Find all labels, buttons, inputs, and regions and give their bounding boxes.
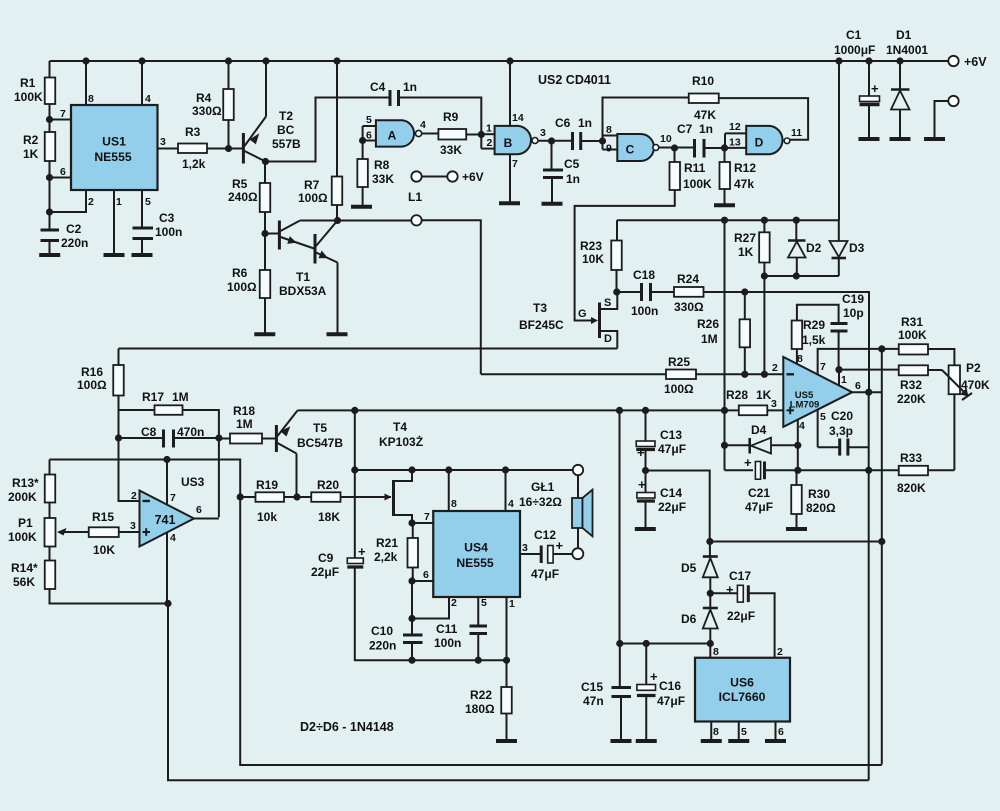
pin label 3 gate B (540, 127, 546, 139)
wire R11 link (674, 148, 676, 162)
pin label 13 gate D (729, 137, 741, 149)
svg-text:R4: R4 (196, 91, 212, 105)
wire R2 to C2 (49, 161, 51, 229)
svg-text:GŁ1: GŁ1 (531, 480, 555, 494)
wire D5 top link (709, 542, 711, 557)
capacitor C18 (631, 268, 658, 318)
svg-text:BDX53A: BDX53A (279, 284, 327, 298)
svg-text:16÷32Ω: 16÷32Ω (519, 495, 562, 509)
wire line to C13 (645, 410, 647, 441)
pin label 5 US4 (481, 597, 487, 609)
wire pin 14 gate B (509, 61, 511, 126)
wire V+ line (50, 460, 882, 766)
wire T5 collector line (298, 409, 739, 411)
svg-text:8: 8 (606, 124, 612, 136)
pin label 6 US3 (196, 504, 202, 516)
wire gate C out (659, 147, 694, 149)
node rail C1 (865, 57, 872, 64)
wire dist to D3 (838, 220, 840, 241)
svg-text:2: 2 (487, 137, 493, 149)
svg-text:KP103Ż: KP103Ż (379, 434, 423, 449)
resistor R18 (230, 404, 262, 444)
ground gate B (499, 201, 520, 205)
svg-text:1K: 1K (23, 147, 39, 161)
wire pin 4 US5 (797, 420, 799, 471)
wire R16 line (119, 348, 618, 350)
node pin7 junction (46, 116, 53, 123)
node C11 bottom (475, 657, 482, 664)
svg-text:R30: R30 (808, 487, 830, 501)
wire P2 bottom to R33 (953, 394, 955, 470)
resistor R25 (664, 355, 696, 396)
svg-text:7: 7 (60, 108, 66, 120)
wire R18 left (219, 438, 230, 440)
wire C17 to pin2 US6 (748, 593, 774, 657)
svg-text:P2: P2 (966, 361, 981, 375)
wire pin 7 US4 (412, 522, 433, 524)
wire C3 to ground (141, 239, 143, 255)
svg-text:BC547B: BC547B (297, 436, 343, 450)
wire pin4node to R30 (796, 470, 798, 485)
diode D6 (681, 608, 718, 629)
svg-text:5: 5 (145, 196, 151, 208)
resistor R13 (8, 475, 55, 505)
capacitor C1 (834, 28, 880, 138)
node R33 output column (865, 467, 872, 474)
svg-text:1n: 1n (699, 122, 713, 136)
wire rail to R1 (49, 61, 51, 78)
wire T5 line to C9 (354, 410, 356, 558)
svg-text:C15: C15 (581, 680, 603, 694)
node D5 top (706, 538, 713, 545)
wire gate D tie (724, 133, 726, 148)
wire pin2 line (481, 373, 666, 375)
svg-text:R7: R7 (304, 178, 320, 192)
wire T5 emitter down (296, 454, 298, 498)
node pin6 junction (46, 174, 53, 181)
svg-text:470K: 470K (961, 378, 990, 392)
svg-text:47μF: 47μF (745, 500, 773, 514)
node right column D5line (878, 538, 885, 545)
wire R17 right (183, 410, 219, 517)
wire pin 4 US4 (505, 470, 507, 511)
wire pin 5 C11 (477, 597, 479, 626)
pin label 12 gate D (729, 121, 741, 133)
wire US6 pin6 gnd (775, 722, 777, 740)
svg-text:100K: 100K (683, 177, 712, 191)
resistor R4 (192, 89, 234, 120)
svg-text:D4: D4 (751, 423, 767, 437)
svg-text:4: 4 (145, 93, 151, 105)
resistor R2 (23, 132, 55, 161)
diode D2 (788, 241, 822, 258)
wire output column (868, 392, 870, 780)
wire R19 left (240, 496, 255, 498)
svg-text:C11: C11 (436, 622, 458, 636)
pin label 4 US3 (170, 532, 176, 544)
op-amp US5 LM709 (783, 357, 852, 427)
svg-text:C5: C5 (564, 157, 580, 171)
svg-text:33K: 33K (372, 172, 394, 186)
wire US3 out (194, 518, 219, 520)
capacitor C19 (831, 292, 865, 331)
node pin4 D4 (794, 442, 801, 449)
wire R13 to P1 (49, 503, 51, 519)
capacitor C10 (369, 624, 423, 653)
svg-text:5: 5 (820, 411, 826, 423)
svg-text:22μF: 22μF (658, 500, 686, 514)
wire C10 link (411, 619, 413, 636)
svg-text:220K: 220K (897, 392, 926, 406)
svg-text:R33: R33 (900, 451, 922, 465)
ground R12 (714, 203, 735, 207)
svg-text:R26: R26 (697, 317, 719, 331)
svg-text:1: 1 (841, 374, 847, 386)
node rail T2 (262, 57, 269, 64)
svg-text:R14*: R14* (11, 561, 38, 575)
wire pin 2 jog (50, 190, 87, 212)
terminal L1 c (411, 215, 421, 225)
wire R16 top (118, 349, 120, 366)
svg-text:C20: C20 (831, 409, 853, 423)
svg-text:10p: 10p (843, 306, 864, 320)
wire pin 8 US4 (448, 470, 450, 511)
capacitor C3 (133, 211, 183, 239)
pin label 4 US1 (145, 93, 151, 105)
wire node to C14 (645, 471, 647, 493)
wire C5 to ground (551, 178, 553, 203)
wire pin 4 US1 (141, 61, 143, 105)
pin label 1 US1 (116, 196, 122, 208)
wire T4 drain to pin7 (411, 515, 413, 523)
capacitor C20 (829, 409, 853, 456)
wire R4 to base node (228, 120, 230, 149)
svg-text:22μF: 22μF (311, 565, 339, 579)
wire C13 to node (645, 450, 647, 471)
resistor R16 (77, 365, 124, 396)
pin label 2 US6 (777, 646, 783, 658)
node pin4 US4 (502, 466, 509, 473)
node T1 base (261, 230, 268, 237)
ground C1 (859, 137, 880, 141)
wire gate C pin8 stub (603, 135, 618, 137)
NAND gate C (617, 134, 659, 161)
svg-text:47K: 47K (694, 108, 716, 122)
node gate A inputs (359, 137, 366, 144)
node rail R7 (333, 57, 340, 64)
wire R12 link (724, 148, 726, 162)
svg-text:+: + (358, 544, 366, 559)
node rail pin4 (138, 57, 145, 64)
svg-text:R8: R8 (374, 158, 390, 172)
wire R27 low (763, 263, 765, 277)
wire R23 to S node (616, 270, 618, 292)
diode D3 (830, 241, 865, 258)
svg-text:1N4001: 1N4001 (886, 43, 928, 57)
svg-text:C12: C12 (534, 528, 556, 542)
wire pin 1 US1 (113, 190, 115, 254)
pin label 5 US5 (820, 411, 826, 423)
resistor R17 (142, 390, 189, 415)
wire gate C pin9 stub (603, 149, 618, 151)
wire R18 to T5 base (262, 438, 275, 440)
svg-text:R24: R24 (677, 272, 699, 286)
node gate D input (721, 144, 728, 151)
svg-text:100Ω: 100Ω (227, 280, 257, 294)
node T5 R19 R20 (293, 493, 300, 500)
wire R10 to gate D out (719, 98, 808, 140)
capacitor C14 (637, 477, 686, 514)
ground C15 (611, 739, 632, 743)
node R27 bottom (761, 272, 768, 279)
resistor R24 (674, 272, 704, 314)
svg-text:D5: D5 (681, 561, 697, 575)
svg-text:3,3p: 3,3p (829, 424, 853, 438)
wire R22 to ground (506, 714, 508, 740)
wire pin7 to R21 (412, 523, 414, 538)
pin label 2 gate B (487, 137, 493, 149)
wire R11 to T3 gate (575, 190, 675, 321)
wire C8 left (119, 437, 164, 439)
node R26 top (741, 288, 748, 295)
svg-text:+: + (726, 582, 734, 597)
svg-text:C13: C13 (660, 428, 682, 442)
wire C18 to R24 (651, 291, 675, 293)
transistor T5 (276, 411, 343, 454)
wire R12 to ground (724, 189, 726, 204)
svg-text:18K: 18K (318, 510, 340, 524)
resistor R28 (726, 388, 772, 415)
pin label 4 US4 (508, 498, 514, 510)
node C8 left (115, 434, 122, 441)
wire pin 8 US6 (709, 644, 711, 658)
wire rail drop to distribution (838, 61, 840, 220)
wire aux terminal (935, 101, 949, 138)
node pin2 junction (46, 208, 53, 215)
node R27 pin2 (761, 371, 768, 378)
svg-text:240Ω: 240Ω (228, 190, 258, 204)
svg-text:T2: T2 (279, 109, 293, 123)
wire gate D pin12 stub (725, 132, 746, 134)
pin label 6 US6 (778, 726, 784, 738)
ground C3 (132, 253, 153, 257)
svg-text:C16: C16 (659, 679, 681, 693)
wire D6 to pin8 line (709, 629, 711, 644)
wire x725 vertical (724, 220, 726, 470)
resistor R23 (580, 239, 622, 270)
node rail pin8 (82, 57, 89, 64)
wire pin 8 US5 (796, 349, 798, 365)
wire C10 down (411, 643, 413, 661)
svg-text:7: 7 (512, 158, 518, 170)
node rail drop (835, 57, 842, 64)
svg-text:G: G (578, 308, 587, 320)
wire R15 to pin3 (119, 531, 140, 533)
svg-text:2: 2 (777, 646, 783, 658)
wire dist to D2 (795, 220, 797, 240)
pin label 2 US1 (88, 196, 94, 208)
svg-text:1K: 1K (756, 388, 772, 402)
svg-text:C: C (626, 143, 635, 157)
svg-text:US4: US4 (464, 541, 488, 555)
svg-text:C3: C3 (159, 211, 175, 225)
wire R19 to node (284, 496, 297, 498)
svg-text:T3: T3 (533, 301, 547, 315)
svg-text:3: 3 (522, 542, 528, 554)
svg-text:R11: R11 (684, 161, 706, 175)
wire P1 wiper to R15 (63, 531, 89, 533)
svg-text:US3: US3 (181, 475, 205, 489)
pin label 3 US4 (522, 542, 528, 554)
potentiometer P2 (942, 361, 990, 400)
svg-text:R5: R5 (232, 177, 248, 191)
svg-text:R12: R12 (734, 161, 756, 175)
svg-text:100K: 100K (8, 530, 37, 544)
ground R8 (351, 205, 372, 209)
svg-text:R19: R19 (256, 478, 278, 492)
capacitor C12 (531, 528, 564, 581)
wire R5 to T1 base (264, 212, 266, 234)
wire dist to R27 (763, 220, 765, 232)
svg-text:+: + (556, 538, 564, 553)
wire L1 to R25 line (422, 220, 481, 374)
svg-text:C1: C1 (846, 28, 862, 42)
svg-text:R16: R16 (81, 365, 103, 379)
svg-text:220n: 220n (369, 639, 396, 653)
wire C13 node to D5 (646, 471, 710, 542)
svg-text:R27: R27 (734, 231, 756, 245)
resistor R5 (228, 177, 270, 212)
pin label 6 gate A (366, 130, 372, 142)
wire clamp bottom line (764, 275, 838, 277)
svg-text:1: 1 (509, 598, 515, 610)
node pin7 US3 (163, 456, 170, 463)
wire D4 line (725, 444, 749, 446)
svg-text:6: 6 (60, 166, 66, 178)
wire pin5 to C20 (818, 446, 840, 448)
svg-text:10: 10 (660, 133, 672, 145)
svg-text:C4: C4 (370, 80, 386, 94)
wire R16 bottom to pin2 (119, 396, 140, 502)
resistor R31 (898, 315, 928, 355)
svg-text:L1: L1 (408, 190, 422, 204)
svg-text:33K: 33K (440, 143, 462, 157)
svg-text:C18: C18 (633, 268, 655, 282)
node gate C out (671, 144, 678, 151)
resistor R9 (438, 110, 466, 157)
pin label 14 gate B (512, 112, 524, 124)
transistor T2 (243, 109, 301, 164)
wire gate C tie (602, 136, 604, 150)
label +6V mid (462, 170, 484, 184)
svg-text:47k: 47k (734, 177, 754, 191)
svg-text:BF245C: BF245C (519, 318, 564, 332)
node D6 pin8 (707, 640, 714, 647)
svg-text:C14: C14 (660, 486, 682, 500)
terminal L1 b (447, 171, 457, 181)
svg-text:C19: C19 (842, 292, 864, 306)
svg-text:330Ω: 330Ω (192, 104, 222, 118)
svg-text:5: 5 (741, 726, 747, 738)
svg-text:C2: C2 (66, 222, 82, 236)
capacitor C5 (543, 157, 580, 186)
wire T1 collector line (300, 220, 411, 222)
capacitor C7 (677, 122, 713, 158)
wire R3 to T2 base (207, 148, 243, 150)
wire pin 1 US5 (838, 370, 840, 386)
wire pin 5 to C3 (141, 190, 143, 227)
node C16 line (643, 640, 650, 647)
ground D1 (890, 137, 911, 141)
svg-text:47μF: 47μF (531, 567, 559, 581)
pin label 7 US5 (820, 361, 826, 373)
svg-text:LM709: LM709 (790, 400, 820, 411)
wire R33 right (928, 469, 954, 471)
wire R26 top (744, 292, 746, 319)
svg-text:R21: R21 (376, 536, 398, 550)
resistor R3 (178, 125, 207, 171)
wire rail to R7 (336, 61, 338, 177)
wire dist to R23 (616, 220, 618, 240)
wire D5 to C17 node (709, 577, 711, 593)
node C9 top (351, 466, 358, 473)
resistor R6 (227, 266, 270, 298)
wire gate A out (422, 133, 439, 135)
wire pin 7 US3 (166, 460, 168, 505)
pin label 6 (60, 166, 66, 178)
pin label 1 US5 (841, 374, 847, 386)
wire V+ to R13 (49, 460, 51, 475)
svg-text:+: + (744, 455, 752, 470)
svg-text:4: 4 (420, 119, 426, 131)
pin label 8 gate C (606, 124, 612, 136)
svg-text:2: 2 (131, 490, 137, 502)
svg-text:180Ω: 180Ω (465, 702, 495, 716)
svg-text:12: 12 (729, 121, 741, 133)
resistor R12 (720, 161, 757, 191)
wire R24 line to output column (745, 292, 869, 392)
svg-text:R25: R25 (668, 355, 690, 369)
wire US6 pin3 gnd (710, 722, 712, 740)
wire pin1 to R32 (839, 369, 899, 371)
resistor R33 (897, 451, 928, 495)
node C15 line (616, 640, 623, 647)
wire R31 to P2 top (928, 349, 954, 365)
node C10 bottom (408, 657, 415, 664)
wire R30 line (798, 469, 899, 471)
svg-text:100K: 100K (898, 328, 927, 342)
svg-text:100n: 100n (631, 304, 658, 318)
svg-text:R23: R23 (580, 239, 602, 253)
wire C17 left (710, 592, 737, 594)
pin label 5 gate A (366, 114, 372, 126)
wire right column (881, 349, 883, 765)
wire gate B pin2 stub (481, 148, 494, 150)
ground C14 (635, 527, 656, 531)
wire T1 emitter to ground (337, 263, 339, 334)
wire pin 8 US1 (85, 61, 87, 105)
svg-text:C7: C7 (677, 122, 693, 136)
svg-text:+: + (650, 669, 658, 684)
svg-text:9: 9 (606, 143, 612, 155)
resistor R8 (357, 158, 394, 187)
node R22 top (503, 657, 510, 664)
svg-text:+6V: +6V (964, 55, 987, 69)
diode D1 (886, 28, 928, 138)
diode D4 (750, 423, 771, 454)
pin label 4 gate A (420, 119, 426, 131)
wire pin 3 US4 (520, 553, 540, 555)
